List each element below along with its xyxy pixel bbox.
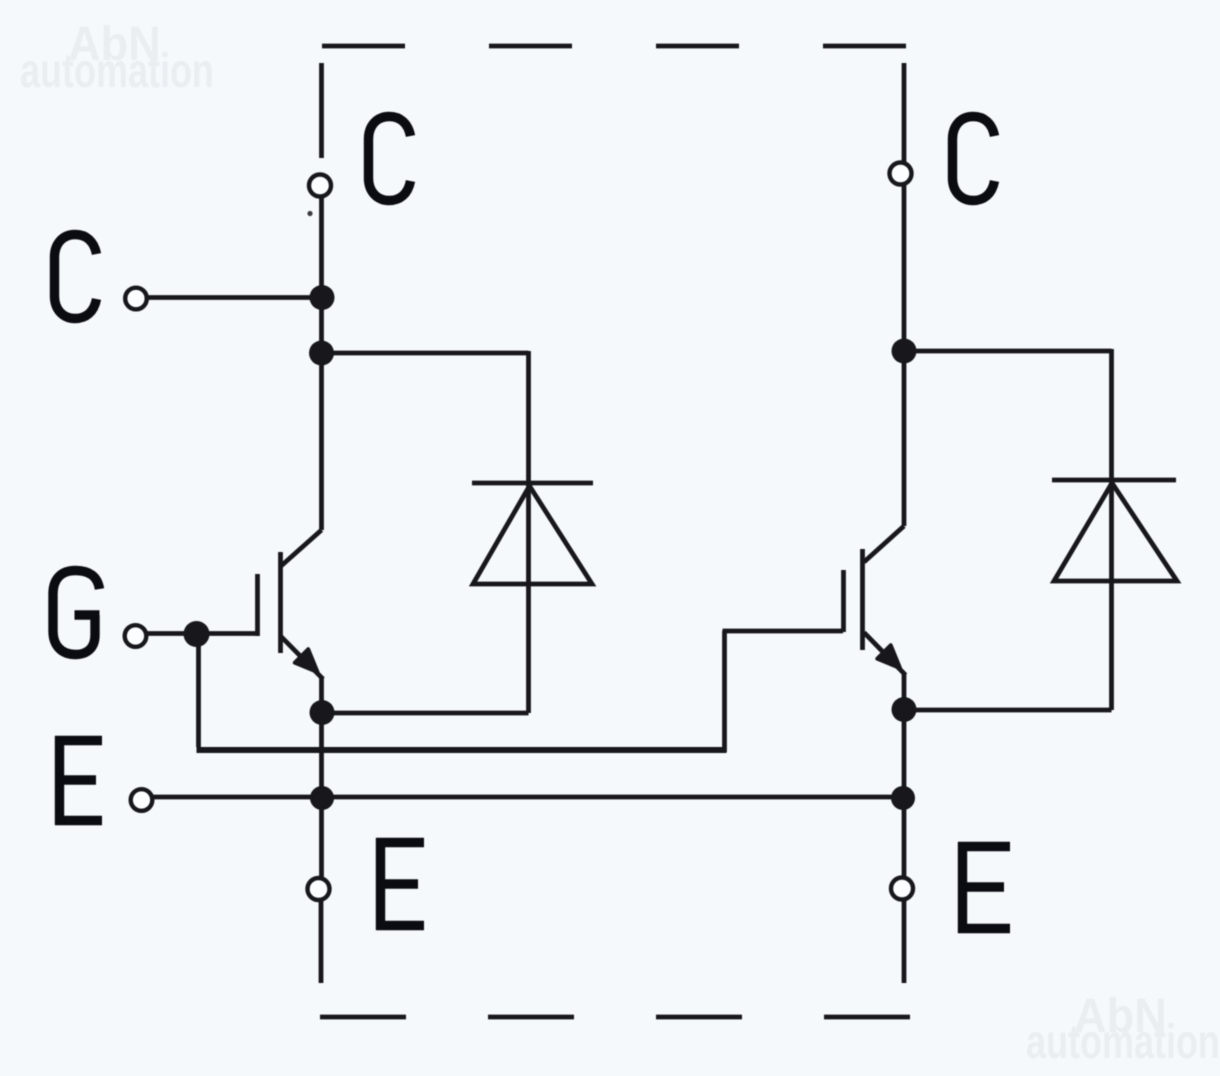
watermark AbN automation bottom-right [1026,989,1220,1068]
label E (side terminal) [55,736,102,825]
diode D2 (right freewheel) [1052,480,1177,581]
wire: C side terminal lead [148,295,322,300]
wire: right emitter vertical [902,674,907,877]
terminal C side (open circle) [125,288,147,310]
junction left collector/diode branch [309,341,334,366]
Q2 gate bar [841,570,846,632]
junction left emitter/E line [310,786,334,810]
svg-text:automation: automation [20,44,214,97]
Q1 gate bar [255,574,260,636]
Q1 body bar [278,552,283,653]
wire: left collector stub from top boundary [319,63,324,158]
junction top-left collector/C-terminal [310,285,335,310]
wire: gate link vertical drop from G junction [196,634,201,747]
IGBT Q2 (right) [844,526,906,675]
wire: right diode branch top [904,349,1112,354]
wire: left emitter vertical [319,678,324,877]
wire: auxiliary emitter line E [151,795,904,800]
D2 cathode bar [1052,478,1176,483]
label C (side terminal) [55,235,97,319]
terminal E2 bottom-right (open circle) [891,878,913,900]
label E (bottom-left terminal) [376,838,424,930]
junction right emitter/E line [891,786,915,810]
module boundary dashed line top [322,44,906,49]
wire: left diode branch bottom [526,351,531,713]
wire: left emitter bottom stub [319,901,324,983]
Q1 emitter arrowhead [295,649,318,672]
watermark AbN automation top-left [20,17,214,97]
terminal C1 top-left (open circle) [309,175,331,197]
label G crossbar [75,610,100,619]
Q2 emitter arrowhead [877,645,900,668]
D1 triangle [473,486,592,584]
terminal E1 bottom-left (open circle) [308,878,330,900]
wire: left diode return to emitter [322,711,529,716]
wire: right emitter bottom stub [902,901,907,983]
junction right emitter/diode return [892,697,917,722]
label C (top-left terminal) [369,117,411,201]
Q2 collector diagonal lead [864,526,904,562]
Q1 emitter diagonal lead [281,637,323,680]
wire: right diode return to emitter [904,708,1112,713]
wire: gate link horizontal run [197,747,727,753]
wire: left diode branch top [322,351,529,356]
terminal E side (open circle) [131,789,153,811]
wire: gate link riser [722,631,727,752]
module boundary dashed line bottom [320,1015,910,1020]
speck artifact [307,211,312,216]
Q1 collector diagonal lead [281,530,322,566]
IGBT Q1 (left) [258,530,324,679]
diode D1 (left freewheel) [472,483,593,584]
svg-text:automation: automation [1026,1015,1220,1068]
junction right collector/diode branch [892,339,917,364]
label G (gate terminal) [53,571,100,655]
junction left gate [184,621,210,647]
wire: left gate lead [148,631,257,636]
wire: right gate lead [723,629,844,634]
label C (top-right terminal) [953,117,995,201]
D2 triangle [1054,483,1177,581]
D1 cathode bar [472,481,593,486]
Q2 body bar [860,549,865,650]
wire: left collector vertical [319,196,324,530]
label E (bottom-right terminal) [958,842,1010,933]
wire: right collector stub from top boundary [902,63,907,526]
junction left emitter/diode return [310,700,335,725]
terminal G (open circle) [125,625,147,647]
wire: right diode branch bottom [1109,349,1114,710]
Q2 emitter diagonal lead [864,633,906,676]
terminal C2 top-right (open circle) [890,163,912,185]
